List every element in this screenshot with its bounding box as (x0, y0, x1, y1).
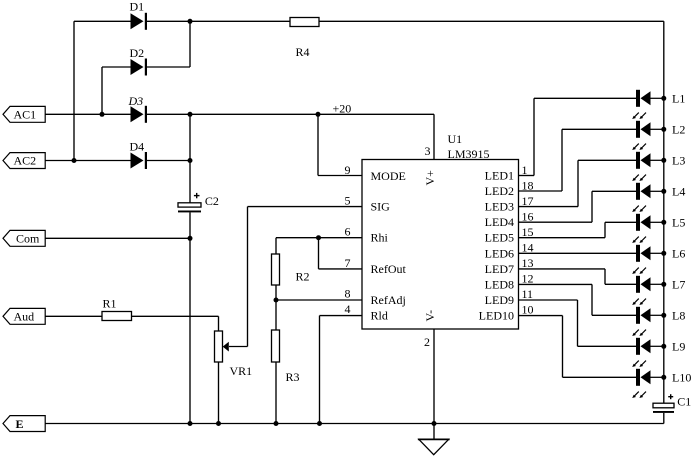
wire VR1 wiper (229, 346, 248, 348)
svg-text:L1: L1 (672, 92, 685, 106)
svg-text:17: 17 (522, 194, 534, 208)
wire vertical C1 bottom to E (663, 413, 665, 424)
junction E at Rld (317, 421, 322, 426)
LED L2 (636, 121, 664, 138)
wire vertical D1-AC2 (73, 21, 75, 160)
wire vertical pin 3 V+ (433, 114, 435, 159)
wire vertical R2 bottom to R3 top (275, 285, 277, 330)
svg-text:Aud: Aud (14, 310, 35, 324)
svg-text:L4: L4 (672, 185, 685, 199)
wire vertical pin 4 to E (319, 316, 321, 424)
svg-text:11: 11 (522, 287, 534, 301)
wire vertical D3 out down to C2 (189, 114, 191, 203)
wire pin 9 MODE (318, 175, 362, 177)
LED L10 (636, 369, 664, 386)
svg-text:R4: R4 (296, 45, 310, 59)
svg-text:14: 14 (522, 241, 534, 255)
svg-text:LED6: LED6 (485, 246, 514, 260)
wire vertical pin17 jog to L3 (577, 160, 579, 206)
wire vertical pin 2 V- to ground (433, 329, 435, 439)
wire pin 14 to L6 (519, 252, 637, 254)
wire Aud to R1 (45, 315, 102, 317)
svg-text:13: 13 (522, 256, 534, 270)
wire D2 anode (102, 66, 131, 68)
wire R4 to top-right corner (319, 20, 664, 22)
svg-text:LED8: LED8 (485, 277, 514, 291)
wire vertical +20 down to pin 9 (317, 114, 319, 175)
wire pin 10 stub (519, 315, 563, 317)
wire vertical pin12 jog to L8 (591, 284, 593, 315)
wire pin 17 stub (519, 206, 579, 208)
LED L5 (636, 214, 664, 231)
wire pin 15 stub (519, 237, 606, 239)
junction bus L6 (661, 251, 666, 256)
svg-text:LED9: LED9 (485, 293, 514, 307)
wire pin 13 stub (519, 268, 606, 270)
svg-text:5: 5 (345, 194, 351, 208)
svg-text:18: 18 (522, 179, 534, 193)
svg-text:Rld: Rld (371, 309, 388, 323)
svg-text:3: 3 (425, 144, 431, 158)
svg-text:6: 6 (345, 225, 351, 239)
wire D3 out +20 rail (147, 113, 435, 115)
junction E at R3 (274, 421, 279, 426)
svg-text:V+: V+ (423, 170, 437, 186)
wire vertical pin10 jog to L10 (562, 316, 564, 378)
svg-text:L6: L6 (672, 247, 685, 261)
wire vertical pin13 jog to L7 (604, 269, 606, 284)
wire vertical pin15 jog to L5 (604, 222, 606, 237)
svg-text:SIG: SIG (371, 200, 391, 214)
LED L9 (636, 338, 664, 355)
resistor R1 (102, 312, 132, 321)
svg-text:MODE: MODE (371, 169, 406, 183)
svg-text:L5: L5 (672, 216, 685, 230)
wire vertical pin11 jog to L9 (577, 300, 579, 346)
svg-text:12: 12 (522, 272, 534, 286)
junction D3 out (188, 112, 193, 117)
svg-text:D3: D3 (128, 94, 144, 108)
wire AC2 to D4 (45, 160, 130, 162)
junction Rhi-RefOut (316, 235, 321, 240)
svg-text:D1: D1 (130, 0, 145, 14)
svg-text:L8: L8 (672, 309, 685, 323)
wire vertical Rhi to R2 top (275, 238, 277, 254)
junction E at ground (432, 421, 437, 426)
op-amp U1 LM3915 chip body (362, 160, 519, 330)
wire pin 7 RefOut (319, 268, 363, 270)
wire vertical R1 corner to VR1 top (218, 316, 220, 331)
LED L7 (636, 276, 664, 293)
svg-text:10: 10 (522, 303, 534, 317)
junction Com (188, 236, 193, 241)
diode D4 (131, 152, 148, 169)
wire pin 6 Rhi (276, 237, 362, 239)
port AC2 (3, 153, 45, 169)
svg-text:E: E (16, 417, 24, 431)
junction bus L9 (661, 344, 666, 349)
junction bus L5 (661, 220, 666, 225)
wire vertical SIG to wiper (247, 207, 249, 347)
wire pin 5 SIG (248, 206, 363, 208)
junction E at VR1 (216, 421, 221, 426)
svg-text:LED2: LED2 (485, 184, 514, 198)
junction D2 riser on AC1 (100, 112, 105, 117)
wire vertical pin1 jog to L1 (533, 98, 535, 175)
capacitor C2 (178, 203, 201, 207)
junction E at C2 branch (188, 421, 193, 426)
junction bus L8 (661, 313, 666, 318)
svg-text:L10: L10 (672, 371, 691, 385)
svg-text:AC1: AC1 (14, 108, 37, 122)
svg-text:7: 7 (345, 256, 351, 270)
svg-text:+20: +20 (333, 102, 352, 116)
wire L4 row (592, 190, 636, 192)
svg-text:LED3: LED3 (485, 200, 514, 214)
wire vertical D2 up to D1 rail (189, 21, 191, 67)
wire pin 16 stub (519, 221, 593, 223)
svg-text:C2: C2 (205, 194, 219, 208)
svg-text:L7: L7 (672, 278, 685, 292)
svg-text:LED5: LED5 (485, 231, 514, 245)
junction bus L1 (661, 96, 666, 101)
svg-text:LED7: LED7 (485, 262, 514, 276)
wire vertical R3 bottom to E (275, 362, 277, 424)
wire E rail (45, 423, 663, 425)
svg-text:D4: D4 (130, 140, 145, 154)
wire pin 18 stub (519, 190, 563, 192)
wire AC1 to D3 (45, 113, 130, 115)
svg-text:LED4: LED4 (485, 215, 514, 229)
wire D4 cathode (147, 160, 191, 162)
wire pin 8 RefAdj (276, 299, 362, 301)
wire L7 row (605, 283, 636, 285)
junction bus L2 (661, 127, 666, 132)
wire R1 to VR1 corner (132, 315, 219, 317)
resistor R3 (272, 330, 280, 362)
wire vertical pin6-pin7 jog (318, 238, 320, 269)
svg-text:AC2: AC2 (14, 154, 37, 168)
svg-text:D2: D2 (130, 46, 145, 60)
wire pin 12 stub (519, 283, 593, 285)
svg-text:C1: C1 (677, 394, 691, 408)
wire L10 row (563, 376, 637, 378)
port E (3, 416, 45, 432)
svg-text:VR1: VR1 (230, 364, 253, 378)
junction +20 tap (316, 112, 321, 117)
wire pin 11 stub (519, 299, 578, 301)
LED L8 (636, 307, 664, 324)
wire vertical VR1 bottom to E (218, 362, 220, 424)
svg-text:LED10: LED10 (479, 309, 514, 323)
wire pin 4 Rld (320, 315, 363, 317)
wire L1 row (534, 97, 636, 99)
svg-text:U1: U1 (448, 132, 463, 146)
svg-text:8: 8 (345, 287, 351, 301)
port Com (3, 230, 45, 246)
junction D1 rail (188, 19, 193, 24)
resistor R2 (272, 254, 280, 285)
junction bus L7 (661, 282, 666, 287)
wire L2 row (562, 128, 636, 130)
port Aud (3, 308, 45, 324)
diode D1 (131, 13, 148, 30)
wire L5 row (605, 221, 636, 223)
wire D2 cathode (147, 66, 191, 68)
port AC1 (3, 106, 45, 122)
junction RefAdj R2/R3 (274, 298, 279, 303)
resistor R4 (290, 18, 319, 27)
wire Com (45, 237, 190, 239)
svg-text:4: 4 (345, 302, 351, 316)
wire L8 row (592, 314, 636, 316)
svg-text:L2: L2 (672, 123, 685, 137)
svg-text:R3: R3 (286, 370, 300, 384)
wire pin 1 stub (519, 175, 535, 177)
capacitor C1 (653, 403, 674, 408)
wire vertical pin18 jog to L2 (561, 129, 563, 191)
svg-text:LM3915: LM3915 (448, 147, 490, 161)
svg-text:L3: L3 (672, 154, 685, 168)
svg-text:15: 15 (522, 225, 534, 239)
wire L3 row (578, 159, 636, 161)
svg-text:Com: Com (16, 232, 40, 246)
wire D1 anode feed (74, 20, 131, 22)
wire L9 row (578, 345, 637, 347)
svg-text:R1: R1 (103, 297, 117, 311)
svg-text:1: 1 (522, 163, 528, 177)
junction bus L10 (661, 375, 666, 380)
svg-text:R2: R2 (296, 270, 310, 284)
svg-text:RefOut: RefOut (371, 262, 407, 276)
ground symbol (419, 439, 449, 454)
wire D1 cathode to R4 (147, 20, 291, 22)
svg-text:RefAdj: RefAdj (371, 293, 406, 307)
svg-text:2: 2 (424, 335, 430, 349)
svg-text:9: 9 (345, 163, 351, 177)
wire vertical D2-AC1 (101, 67, 103, 114)
junction D1 riser on AC2 (72, 158, 77, 163)
svg-text:LED1: LED1 (485, 169, 514, 183)
svg-text:Rhi: Rhi (371, 231, 389, 245)
svg-text:V-: V- (423, 310, 437, 322)
potentiometer VR1 (215, 331, 223, 362)
junction bus L4 (661, 189, 666, 194)
LED L6 (636, 245, 664, 262)
wire vertical pin16 jog to L4 (591, 191, 593, 222)
diode D2 (131, 59, 148, 76)
junction bus L3 (661, 158, 666, 163)
svg-text:L9: L9 (672, 340, 685, 354)
LED L4 (636, 183, 664, 200)
junction D4 out (188, 158, 193, 163)
svg-text:16: 16 (522, 210, 534, 224)
wire vertical C2 down to E (189, 212, 191, 423)
LED L3 (636, 152, 664, 169)
diode D3 (131, 106, 148, 123)
LED L1 (636, 90, 664, 107)
wire vertical right LED bus (663, 21, 665, 403)
